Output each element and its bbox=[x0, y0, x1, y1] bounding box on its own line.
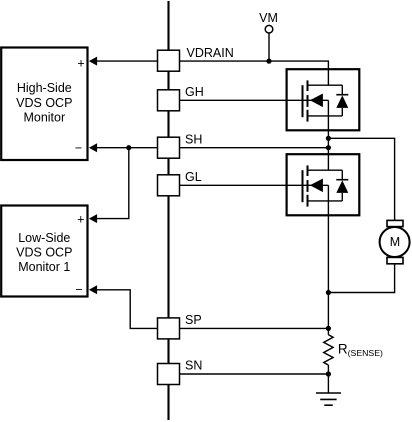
wire resistor bottom to ground bbox=[327, 365, 329, 393]
motor M1 bbox=[380, 220, 410, 263]
pin SH bbox=[158, 133, 203, 159]
transistor Q2 low-side NMOS with body diode bbox=[287, 154, 360, 215]
wire VDRAIN to Q1 drain bbox=[180, 61, 329, 85]
pin VDRAIN bbox=[158, 46, 234, 71]
pin GH bbox=[158, 85, 204, 111]
wire SH to Q2 drain node bbox=[180, 147, 329, 149]
svg-text:+: + bbox=[77, 56, 84, 70]
wire SN to sense resistor bottom bbox=[180, 373, 329, 375]
wire SH tap down to low-side monitor + (arrowed) bbox=[89, 148, 129, 223]
supply VM bbox=[259, 11, 278, 61]
ground bbox=[316, 393, 341, 405]
svg-text:VDS OCP: VDS OCP bbox=[16, 96, 72, 110]
svg-text:−: − bbox=[75, 282, 82, 296]
wire motor low return bbox=[328, 264, 394, 293]
pin SN bbox=[158, 358, 203, 384]
node VM tap on VDRAIN wire (junction dot) bbox=[266, 59, 271, 64]
svg-text:GL: GL bbox=[185, 170, 202, 184]
wire GH to Q1 gate bbox=[180, 99, 329, 101]
resistor R(SENSE) bbox=[324, 335, 383, 365]
node motor high tap (junction dot) bbox=[326, 136, 331, 141]
block low-side VDS OCP monitor U2 bbox=[1, 206, 87, 297]
svg-text:High-Side: High-Side bbox=[17, 81, 72, 95]
wire VDRAIN to high-side monitor + (arrowed) bbox=[89, 57, 158, 66]
wire Q2 source down to sense node bbox=[327, 201, 329, 335]
svg-text:Monitor: Monitor bbox=[23, 110, 65, 124]
svg-text:VDS OCP: VDS OCP bbox=[16, 246, 72, 260]
svg-text:SH: SH bbox=[185, 133, 202, 147]
wire main gate-driver bus (vertical) bbox=[167, 1, 169, 420]
node SH right tap (junction dot) bbox=[326, 145, 331, 150]
svg-text:M: M bbox=[390, 235, 400, 249]
svg-text:GH: GH bbox=[185, 85, 204, 99]
svg-text:Monitor 1: Monitor 1 bbox=[18, 260, 70, 274]
wire Q1 source to Q2 drain bbox=[327, 116, 329, 170]
node motor return tap (junction dot) bbox=[326, 290, 331, 295]
svg-text:−: − bbox=[75, 141, 82, 155]
svg-text:VDRAIN: VDRAIN bbox=[187, 46, 234, 60]
node SH tap (junction dot) bbox=[126, 145, 131, 150]
svg-text:SP: SP bbox=[185, 313, 202, 327]
wire SP to low-side monitor - (arrowed) bbox=[89, 285, 158, 328]
pin SP bbox=[158, 313, 202, 339]
svg-text:SN: SN bbox=[185, 358, 202, 372]
wire SP to sense node bbox=[180, 327, 329, 329]
wire motor high branch bbox=[328, 138, 394, 220]
svg-text:+: + bbox=[77, 212, 84, 226]
block high-side VDS OCP monitor U1 bbox=[1, 48, 87, 161]
pin GL bbox=[158, 170, 202, 196]
node SP tap (junction dot) bbox=[326, 326, 331, 331]
svg-text:R(SENSE): R(SENSE) bbox=[338, 342, 383, 359]
svg-text:VM: VM bbox=[259, 11, 278, 25]
transistor Q1 high-side NMOS with body diode bbox=[287, 69, 360, 130]
svg-text:Low-Side: Low-Side bbox=[18, 231, 70, 245]
wire GL to Q2 gate bbox=[180, 184, 329, 186]
wire SH to high-side monitor - (arrowed) bbox=[89, 143, 158, 152]
node SN tap (junction dot) bbox=[326, 371, 331, 376]
